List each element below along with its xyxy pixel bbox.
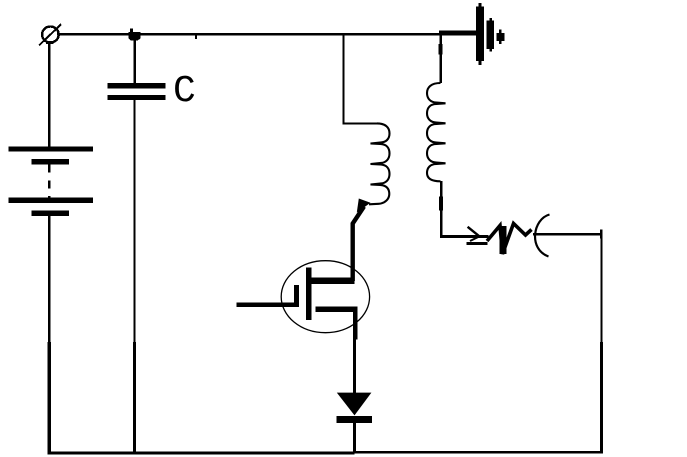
MOSFET source drop [353, 311, 357, 340]
node junction dot [129, 28, 141, 40]
wire varicap to right rail [533, 233, 602, 235]
right rail top tick [600, 230, 602, 239]
small tick artifact on top wire [195, 35, 197, 39]
diode D1 cathode bar [336, 416, 372, 423]
arrowhead on drain wire (points to coil) [357, 199, 371, 213]
wire drain (thick) up from MOSFET to arrowhead [353, 207, 364, 282]
wire junction down to capacitor [134, 35, 136, 84]
wire source down to diode [353, 338, 356, 393]
varicap arrow lower jaw [470, 236, 480, 241]
MOSFET gate lead [237, 303, 296, 308]
thick blob on secondary down wire [439, 197, 443, 211]
wire circle down to battery [46, 41, 54, 44]
varicap arrow tail bar [467, 242, 488, 245]
MOSFET channel bar [306, 268, 312, 321]
ground symbol (top right) [476, 3, 504, 65]
varicap arrow head [468, 227, 480, 237]
wire branch down to secondary coil [439, 35, 441, 83]
MOSFET gate electrode [294, 285, 299, 307]
MOSFET drain bar [312, 277, 355, 284]
varicap zigzag body [487, 224, 532, 255]
wire battery down to bottom rail [48, 216, 50, 342]
MOSFET Q1 body circle [281, 261, 369, 333]
diode D1 triangle [337, 393, 372, 416]
wire capacitor down to bottom rail [133, 100, 135, 342]
wire diode down to bottom rail [353, 423, 356, 453]
terminal circle (input) [39, 24, 61, 45]
wire right rail down [600, 234, 602, 342]
junction blob on secondary wire [438, 44, 442, 55]
inductor L2 (secondary coil, bumps left) [427, 83, 446, 181]
battery B1 [9, 146, 94, 216]
inductor L1 (primary coil, bumps right) [369, 123, 390, 204]
wire branch down to primary coil [343, 34, 345, 124]
MOSFET source bar [316, 306, 358, 312]
svg-text:C: C [173, 70, 196, 113]
wire top thick segment to ground [439, 31, 477, 36]
wire top horizontal [57, 33, 441, 35]
wire secondary coil down [440, 181, 442, 237]
wire bottom rail [48, 451, 355, 454]
varicap arc [535, 215, 549, 257]
wire to varicap [440, 235, 489, 238]
capacitor C plates [108, 83, 166, 100]
